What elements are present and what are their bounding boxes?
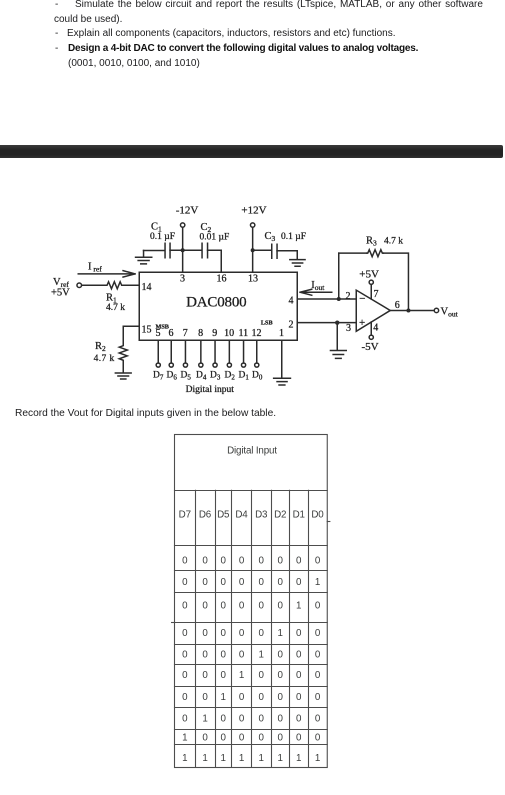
D7 input terminal [156,363,160,367]
svg-text:0: 0 [296,733,302,744]
ground (C1 left) [136,251,152,264]
svg-text:0: 0 [278,733,284,744]
svg-text:0: 0 [278,670,284,681]
svg-text:1: 1 [182,753,187,764]
svg-text:4.7 k: 4.7 k [106,303,125,313]
svg-text:D1: D1 [239,371,250,382]
Vout terminal [434,308,438,312]
svg-text:0: 0 [278,692,284,703]
svg-text:0: 0 [259,714,265,725]
svg-text:16: 16 [217,274,227,285]
svg-text:0: 0 [296,650,302,661]
svg-text:1: 1 [182,733,187,744]
svg-text:0: 0 [239,628,245,639]
svg-text:D5: D5 [181,371,192,382]
wire ground to C1 [144,250,165,252]
svg-text:0: 0 [239,714,245,725]
-12V supply terminal [180,223,184,227]
svg-text:1: 1 [221,753,226,764]
svg-text:13: 13 [248,274,258,285]
svg-text:0: 0 [278,577,284,588]
data row 10: 11111111 [182,753,320,764]
data row 5: 00001000 [182,650,321,661]
feedback loop left vertical wire [338,253,340,299]
svg-text:D3: D3 [210,371,221,382]
svg-text:D6: D6 [167,371,178,382]
svg-text:1: 1 [239,670,244,681]
svg-text:0: 0 [259,628,265,639]
svg-text:D0: D0 [311,510,324,521]
svg-text:0: 0 [202,650,208,661]
svg-text:7: 7 [374,289,379,300]
junction node C (inverting input) [337,297,341,301]
svg-text:D2: D2 [274,510,286,521]
svg-text:1: 1 [278,753,283,764]
svg-text:1: 1 [221,692,226,703]
svg-text:0: 0 [202,556,208,567]
svg-text:+5V: +5V [359,268,379,280]
data row 1: 00000000 [182,556,321,567]
table outer border [175,435,328,768]
wire C1 to node A [170,249,183,251]
svg-text:0: 0 [202,733,208,744]
svg-text:0: 0 [202,577,208,588]
svg-text:0: 0 [182,714,188,725]
svg-text:0: 0 [221,670,227,681]
svg-text:0: 0 [239,601,245,612]
data row 9: 10000000 [182,733,321,744]
svg-text:0: 0 [221,733,227,744]
svg-text:15: 15 [142,325,152,336]
wire pin 2 to op-amp non-inverting input [297,322,356,324]
bullet line 3 cont [68,57,200,71]
svg-text:D7: D7 [179,510,191,521]
svg-text:12: 12 [252,328,262,339]
svg-text:Digital Input: Digital Input [227,446,277,457]
svg-text:D5: D5 [217,510,230,521]
svg-text:0: 0 [221,556,227,567]
wire node D to ground [336,323,338,351]
svg-text:D2: D2 [225,371,236,382]
svg-text:+12V: +12V [241,205,266,217]
svg-text:LSB: LSB [261,320,273,327]
table column lines [196,490,309,767]
resistor R3 4.7k [367,250,384,257]
svg-text:0: 0 [315,601,321,612]
svg-text:6: 6 [395,300,400,311]
+5V terminal op-amp [369,280,373,284]
svg-text:9: 9 [212,328,217,339]
svg-text:1: 1 [315,577,320,588]
svg-text:0: 0 [315,692,321,703]
tick left edge [172,622,175,624]
D0 input terminal [255,363,259,367]
wire node A to C2 [183,249,202,251]
ground (C3 right) [290,260,305,267]
svg-text:7: 7 [183,328,188,339]
svg-text:0: 0 [221,577,227,588]
svg-text:0: 0 [239,733,245,744]
D3 input terminal [213,363,217,367]
svg-text:0: 0 [239,577,245,588]
feedback wire R3 to output [383,253,408,310]
svg-text:0: 0 [202,670,208,681]
wire C3 to right ground [277,251,297,260]
svg-text:1: 1 [202,714,207,725]
data row 6: 00010000 [182,670,321,681]
Iref arrow line [78,273,134,275]
svg-text:4.7 k: 4.7 k [384,237,403,247]
svg-text:14: 14 [142,282,152,293]
Iout arrow line [303,291,332,293]
svg-text:2: 2 [289,320,294,331]
svg-text:0: 0 [296,670,302,681]
junction node A (-12V rail) [181,248,185,252]
wire Vref terminal to R1 [82,284,107,286]
svg-text:D4: D4 [196,371,207,382]
svg-text:1: 1 [296,601,301,612]
svg-text:0: 0 [259,733,265,744]
D5 input terminal [183,363,187,367]
svg-text:0: 0 [296,692,302,703]
svg-text:1: 1 [202,753,207,764]
svg-text:1: 1 [296,753,301,764]
capacitor C3 [272,244,277,258]
dark divider bar [0,145,503,158]
svg-text:0: 0 [202,628,208,639]
D4 input terminal [199,363,203,367]
svg-text:0: 0 [259,577,265,588]
svg-text:1: 1 [279,328,284,339]
wire +12V terminal through node B to pin 13 [252,227,254,272]
svg-text:Digital input: Digital input [186,385,235,395]
data row 4: 00000100 [182,628,321,639]
svg-text:2: 2 [346,291,351,302]
tick right edge [327,521,330,523]
svg-text:D1: D1 [293,510,305,521]
svg-text:D3: D3 [255,510,268,521]
ground (below R2) [115,373,131,379]
svg-text:1: 1 [278,628,283,639]
svg-text:3: 3 [346,323,351,334]
bullet line 3 bold [55,42,58,56]
svg-text:4: 4 [289,296,294,307]
svg-text:0: 0 [259,670,265,681]
svg-text:R3: R3 [366,236,377,248]
svg-text:0: 0 [182,692,188,703]
svg-text:0: 0 [259,556,265,567]
data row 3: 00000010 [182,601,321,612]
svg-text:0: 0 [278,601,284,612]
resistor R1 4.7k [106,282,123,289]
wire R1 to pin 14 [123,284,140,286]
svg-text:0: 0 [182,556,188,567]
caption below circuit [15,407,276,421]
svg-text:0: 0 [259,692,265,703]
svg-text:1: 1 [239,753,244,764]
D1 input terminal [241,363,245,367]
svg-text:0: 0 [296,714,302,725]
digital input pin wires 5-12 [158,340,257,363]
svg-text:0: 0 [278,714,284,725]
svg-text:D0: D0 [252,371,263,382]
wire node A down to pin 3 [182,250,184,272]
svg-text:5: 5 [156,328,161,339]
svg-text:0: 0 [221,628,227,639]
svg-text:0: 0 [315,670,321,681]
+12V supply terminal [250,223,254,227]
table row line below D labels [175,545,328,547]
svg-text:-5V: -5V [362,341,379,353]
svg-text:+5V: +5V [51,288,70,299]
svg-text:3: 3 [180,274,185,285]
svg-text:−: − [359,293,365,305]
ground (pin 1) [274,378,291,385]
svg-text:+: + [359,317,365,329]
DAC0800 IC U1 box [139,272,297,340]
svg-text:4: 4 [373,323,378,334]
svg-text:Vout: Vout [441,307,459,319]
svg-text:4.7 k: 4.7 k [94,354,115,364]
feedback wire to R3 [339,252,367,254]
svg-text:0: 0 [278,556,284,567]
junction node E (output) [406,308,410,312]
resistor R2 4.7k [119,345,127,362]
svg-text:11: 11 [238,328,248,339]
Vref input terminal [77,283,82,288]
svg-text:0: 0 [296,628,302,639]
D2 input terminal [227,363,231,367]
table header separator [175,490,328,492]
svg-text:1: 1 [315,753,320,764]
svg-text:0: 0 [202,692,208,703]
svg-text:0: 0 [315,556,321,567]
svg-text:C3: C3 [265,231,276,243]
data row 8: 01000000 [182,714,321,725]
svg-text:0: 0 [221,714,227,725]
wire node B to C3 [253,249,272,251]
svg-text:0: 0 [182,650,188,661]
capacitor C1 [165,243,170,258]
capacitor C2 [202,243,208,258]
wire pin 4 (op-amp) to -5V terminal [370,322,372,335]
wire pin 4 to op-amp inverting input [297,298,356,300]
svg-text:0: 0 [259,601,265,612]
svg-text:0: 0 [182,628,188,639]
svg-text:0.1 µF: 0.1 µF [150,232,175,242]
svg-text:6: 6 [169,328,174,339]
wire R2 to ground [122,361,124,372]
wire +5V to pin 7 [370,284,372,298]
Iout arrowhead [300,289,312,295]
svg-text:DAC0800: DAC0800 [186,295,246,311]
table row lines [175,571,328,745]
svg-text:0: 0 [239,650,245,661]
svg-text:0: 0 [278,650,284,661]
wire pin 1 to ground [281,340,283,378]
svg-text:0.01 µF: 0.01 µF [200,233,230,243]
svg-text:0: 0 [315,733,321,744]
svg-text:1: 1 [259,753,264,764]
junction node D (non-inverting input) [335,320,339,324]
D6 input terminal [169,363,173,367]
svg-text:-12V: -12V [176,205,199,217]
junction node B (+12V rail) [251,248,255,252]
wire C2 to pin 16 corner [208,250,222,272]
-5V terminal op-amp [369,335,373,339]
svg-text:10: 10 [224,328,234,339]
svg-text:0: 0 [221,650,227,661]
svg-text:0: 0 [296,577,302,588]
op-amp U1 triangle [356,290,390,331]
wire pin 15 to R2 [123,326,139,344]
output wire [390,309,434,311]
svg-text:1: 1 [259,650,264,661]
data row 7: 00100000 [182,692,321,703]
bullet line 1 [55,0,58,12]
svg-text:0: 0 [202,601,208,612]
svg-text:0: 0 [182,577,188,588]
svg-text:R2: R2 [95,341,106,353]
svg-text:0: 0 [221,601,227,612]
ground (op-amp + input) [330,350,346,358]
svg-text:0: 0 [315,628,321,639]
Iref arrowhead [123,271,135,277]
svg-text:8: 8 [198,328,203,339]
svg-text:0: 0 [239,556,245,567]
svg-text:0.1 µF: 0.1 µF [281,232,306,242]
svg-text:D7: D7 [153,371,164,382]
wire -12V terminal to node A [182,227,184,250]
svg-text:0: 0 [315,650,321,661]
svg-text:0: 0 [296,556,302,567]
data row 2: 00000001 [182,577,320,588]
svg-text:D4: D4 [235,510,248,521]
svg-text:D6: D6 [199,510,212,521]
svg-text:0: 0 [315,714,321,725]
svg-text:Iout: Iout [311,280,325,292]
svg-text:0: 0 [239,692,245,703]
svg-text:I ref: I ref [88,262,102,274]
svg-text:0: 0 [182,670,188,681]
bullet line 1 wrap [54,13,122,27]
bullet line 2 [55,27,58,41]
svg-text:0: 0 [182,601,188,612]
